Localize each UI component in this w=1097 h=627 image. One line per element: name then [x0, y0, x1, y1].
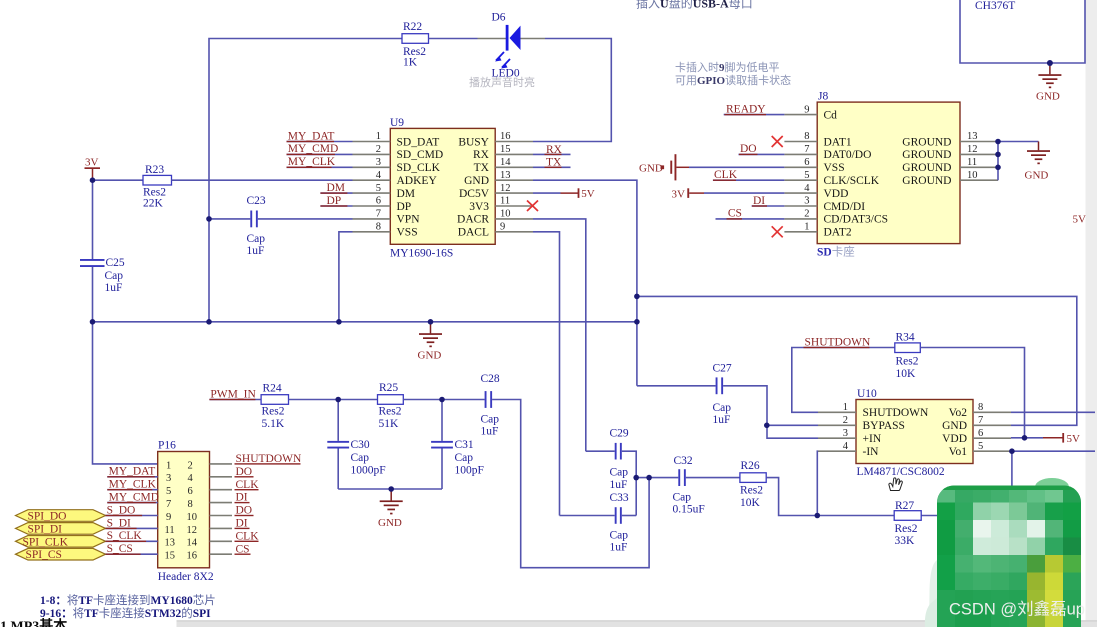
svg-text:BYPASS: BYPASS: [863, 420, 905, 432]
svg-text:1uF: 1uF: [610, 479, 628, 491]
wire R23 to U9 ADKEY: [172, 179, 353, 181]
capacitor C27: [713, 363, 732, 427]
svg-text:MY_CLK: MY_CLK: [288, 156, 336, 168]
svg-text:6: 6: [376, 196, 381, 207]
power port 3V on J8 VDD pin4: [672, 188, 785, 200]
svg-text:3: 3: [376, 157, 381, 168]
svg-text:1.MP3基本: 1.MP3基本: [0, 618, 68, 627]
svg-text:VDD: VDD: [942, 433, 967, 445]
wire VDD pin6 to 5V port: [1011, 433, 1080, 445]
svg-text:R27: R27: [895, 500, 914, 512]
svg-text:DACL: DACL: [458, 227, 489, 239]
svg-text:5V: 5V: [581, 188, 595, 200]
no-connect X on J8 pin1: [772, 226, 783, 237]
svg-text:R22: R22: [403, 21, 422, 33]
wire GND net to C27: [637, 385, 716, 387]
svg-text:12: 12: [500, 183, 511, 194]
svg-text:8: 8: [978, 402, 983, 413]
svg-text:22K: 22K: [143, 197, 164, 209]
port SPI_CS with net label S_CS (P16 pin15): [16, 543, 158, 561]
wire DACL vertical to C33: [560, 515, 615, 517]
U10 right pins: [973, 412, 1011, 451]
svg-text:RX: RX: [473, 149, 490, 161]
svg-text:1uF: 1uF: [713, 414, 731, 426]
svg-text:SPI_DO: SPI_DO: [28, 511, 67, 523]
svg-text:播放声音时亮: 播放声音时亮: [469, 75, 535, 89]
svg-text:6: 6: [188, 486, 193, 497]
svg-text:GND: GND: [1036, 91, 1060, 103]
wire 3V vertical through C25 down to GND bus and P16 pin1: [92, 180, 94, 259]
svg-text:SPI_CS: SPI_CS: [26, 549, 62, 561]
svg-text:10: 10: [500, 209, 511, 220]
svg-text:SHUTDOWN: SHUTDOWN: [805, 337, 871, 349]
svg-text:1: 1: [804, 222, 809, 233]
wire junction to C32: [636, 477, 678, 479]
svg-text:DO: DO: [236, 505, 253, 517]
svg-text:DI: DI: [236, 492, 248, 504]
svg-text:10: 10: [187, 512, 198, 523]
port SPI_CLK with net label S_CLK (P16 pin13): [16, 530, 158, 548]
svg-text:6: 6: [804, 157, 809, 168]
wire U9 DACL pin9 right then down: [533, 232, 560, 516]
net label CS (P16 pin16): [235, 543, 251, 555]
svg-text:11: 11: [500, 196, 510, 207]
svg-text:3: 3: [166, 473, 171, 484]
svg-text:1uF: 1uF: [247, 245, 265, 257]
bottom gray window bar: [177, 620, 1097, 627]
net label DO (P16 pin10): [235, 505, 254, 517]
net label DM: [320, 182, 352, 194]
svg-text:CLK: CLK: [236, 530, 260, 542]
svg-text:S_DI: S_DI: [107, 517, 131, 529]
svg-text:Cap: Cap: [610, 467, 629, 479]
svg-text:13: 13: [967, 131, 978, 142]
svg-text:Cap: Cap: [247, 233, 266, 245]
svg-text:R23: R23: [145, 164, 164, 176]
svg-text:GND: GND: [1025, 170, 1049, 182]
svg-text:10K: 10K: [896, 368, 917, 380]
svg-text:Res2: Res2: [895, 523, 918, 535]
ground symbol on bus: [418, 322, 443, 362]
svg-text:DAT2: DAT2: [824, 227, 852, 239]
svg-text:VDD: VDD: [824, 188, 849, 200]
svg-text:Cd: Cd: [824, 109, 838, 121]
svg-text:DACR: DACR: [457, 214, 489, 226]
svg-text:LM4871/CSC8002: LM4871/CSC8002: [857, 466, 945, 478]
svg-text:Cap: Cap: [713, 402, 732, 414]
svg-text:Header 8X2: Header 8X2: [158, 571, 214, 583]
svg-text:MY_CLK: MY_CLK: [109, 479, 157, 491]
svg-text:S_CLK: S_CLK: [107, 530, 143, 542]
svg-text:11: 11: [165, 525, 175, 536]
svg-text:SD_CLK: SD_CLK: [397, 162, 441, 174]
svg-text:10K: 10K: [740, 497, 761, 509]
svg-text:16: 16: [500, 131, 511, 142]
no-connect X on U9 pin11: [527, 201, 538, 212]
svg-text:D6: D6: [492, 12, 506, 24]
net label CLK (P16 pin14): [235, 530, 260, 542]
svg-text:VSS: VSS: [397, 227, 418, 239]
U9 left pins: [353, 142, 391, 232]
svg-text:14: 14: [187, 538, 198, 549]
svg-text:Res2: Res2: [379, 406, 402, 418]
wire x209 to C23: [209, 218, 250, 220]
svg-text:10: 10: [967, 170, 978, 181]
svg-text:SPI_DI: SPI_DI: [28, 523, 63, 535]
svg-text:SHUTDOWN: SHUTDOWN: [863, 407, 929, 419]
svg-text:MY1690-16S: MY1690-16S: [390, 248, 453, 260]
svg-text:Res2: Res2: [262, 406, 285, 418]
svg-text:MY_DAT: MY_DAT: [109, 466, 156, 478]
svg-text:5: 5: [166, 486, 171, 497]
wire C30 to C31 bottom: [338, 488, 442, 490]
svg-text:2: 2: [188, 460, 193, 471]
svg-text:C28: C28: [481, 373, 500, 385]
net label MY_CLK (P16 pin5): [107, 479, 157, 491]
svg-text:9-16：将TF卡座连接STM32的SPI: 9-16：将TF卡座连接STM32的SPI: [40, 606, 211, 620]
svg-text:7: 7: [804, 144, 809, 155]
svg-text:DO: DO: [236, 466, 253, 478]
ground symbol under CH376T: [1036, 63, 1061, 103]
svg-text:DM: DM: [327, 182, 346, 194]
svg-text:DAT1: DAT1: [824, 136, 852, 148]
svg-text:GND: GND: [942, 420, 967, 432]
svg-text:P16: P16: [158, 440, 176, 452]
long GND wire from x637 to U10 pin7: [637, 296, 1077, 425]
svg-text:GND: GND: [418, 350, 442, 362]
svg-text:TX: TX: [546, 157, 562, 169]
svg-text:7: 7: [978, 415, 983, 426]
svg-text:12: 12: [967, 144, 978, 155]
IC CH376T partial box top right: [960, 0, 1085, 63]
svg-text:5V: 5V: [1073, 214, 1087, 226]
svg-text:7: 7: [166, 499, 171, 510]
capacitor C30 with legs: [327, 400, 385, 490]
svg-text:ADKEY: ADKEY: [397, 175, 438, 187]
svg-text:2: 2: [843, 415, 848, 426]
svg-text:DC5V: DC5V: [459, 188, 490, 200]
svg-text:5.1K: 5.1K: [262, 418, 285, 430]
svg-text:1uF: 1uF: [610, 542, 628, 554]
svg-text:CLK: CLK: [714, 169, 738, 181]
svg-text:SPI_CLK: SPI_CLK: [23, 536, 69, 548]
svg-text:51K: 51K: [379, 418, 400, 430]
svg-text:8: 8: [188, 499, 193, 510]
svg-text:DM: DM: [397, 188, 416, 200]
svg-text:卡插入时9脚为低电平: 卡插入时9脚为低电平: [675, 60, 780, 74]
svg-text:5: 5: [376, 183, 381, 194]
svg-text:8: 8: [804, 131, 809, 142]
svg-text:R24: R24: [263, 383, 282, 395]
svg-text:7: 7: [376, 209, 381, 220]
svg-text:SHUTDOWN: SHUTDOWN: [236, 453, 302, 465]
svg-text:GND: GND: [464, 175, 489, 187]
svg-text:可用GPIO读取插卡状态: 可用GPIO读取插卡状态: [675, 73, 791, 87]
port SPI_DI with net label S_DI (P16 pin11): [16, 517, 158, 535]
svg-text:R25: R25: [379, 382, 398, 394]
J8 right ground pins: [960, 142, 998, 181]
svg-text:PWM_IN: PWM_IN: [210, 388, 256, 400]
svg-text:9: 9: [166, 512, 171, 523]
svg-text:3V: 3V: [672, 188, 686, 200]
net label DO (P16 pin4): [235, 466, 254, 478]
resistor R22: [402, 21, 429, 69]
svg-text:CD/DAT3/CS: CD/DAT3/CS: [824, 214, 889, 226]
net label PWM_IN: [209, 388, 261, 400]
net label MY_CMD: [287, 143, 353, 155]
net label CS (J8 pin2): [716, 208, 785, 220]
svg-text:1K: 1K: [403, 57, 418, 69]
svg-text:SD_CMD: SD_CMD: [397, 149, 444, 161]
svg-text:15: 15: [500, 144, 511, 155]
svg-text:SD卡座: SD卡座: [817, 245, 855, 259]
svg-text:13: 13: [500, 170, 511, 181]
svg-text:3V3: 3V3: [469, 201, 489, 213]
svg-text:READY: READY: [726, 103, 766, 115]
svg-text:11: 11: [967, 157, 977, 168]
wire top-left vertical and top run to R22: [209, 39, 402, 322]
svg-text:Cap: Cap: [351, 452, 370, 464]
power port 5V on U9 DC5V pin12: [533, 188, 595, 200]
svg-text:13: 13: [165, 538, 176, 549]
resistor R24: [261, 383, 288, 431]
svg-text:VSS: VSS: [824, 162, 845, 174]
wire R26 down to -IN node: [766, 478, 894, 516]
resistor R23: [143, 164, 172, 209]
svg-text:2: 2: [804, 209, 809, 220]
power ground bar on J8 VSS pin6: [639, 154, 784, 180]
connector J8 SD card socket: [804, 91, 977, 244]
power port 3V: [85, 156, 101, 180]
svg-text:C25: C25: [106, 257, 125, 269]
svg-text:Cap: Cap: [455, 452, 474, 464]
svg-text:8: 8: [376, 222, 381, 233]
net label SHUTDOWN with wire to U10 pin1: [792, 337, 895, 413]
wire C32 to R26: [686, 477, 740, 479]
svg-text:-IN: -IN: [863, 446, 880, 458]
svg-text:9: 9: [804, 104, 809, 115]
net label MY_CMD (P16 pin7): [107, 492, 159, 504]
svg-text:U10: U10: [857, 388, 877, 400]
net label CLK (P16 pin6): [235, 479, 260, 491]
svg-text:TX: TX: [474, 162, 490, 174]
svg-text:Cap: Cap: [105, 270, 124, 282]
J8 left pins: [784, 115, 817, 232]
U9 right pins: [495, 142, 533, 232]
capacitor C31 with legs: [431, 400, 484, 490]
wire R22 to D6: [429, 38, 478, 40]
svg-text:RX: RX: [546, 144, 563, 156]
svg-text:BUSY: BUSY: [458, 136, 489, 148]
svg-text:4: 4: [843, 441, 849, 452]
svg-text:C29: C29: [610, 428, 629, 440]
mouse hand cursor: [889, 478, 902, 491]
svg-text:9: 9: [500, 222, 505, 233]
svg-text:6: 6: [978, 428, 983, 439]
svg-text:MY_DAT: MY_DAT: [288, 130, 335, 142]
CSDN watermark logo: [925, 478, 1085, 627]
net label READY (J8 pin9): [724, 103, 785, 115]
capacitor C29: [610, 428, 629, 492]
net label DP: [320, 195, 352, 207]
GND bus wire: [93, 321, 637, 323]
svg-text:Res2: Res2: [896, 356, 919, 368]
U10 left pins: [818, 412, 856, 451]
LED D6: [478, 12, 546, 80]
svg-text:C33: C33: [610, 492, 629, 504]
net label DI (J8 pin3): [752, 195, 785, 207]
svg-text:CH376T: CH376T: [975, 0, 1015, 12]
svg-text:5: 5: [804, 170, 809, 181]
svg-text:4: 4: [188, 473, 194, 484]
svg-text:GROUND: GROUND: [902, 136, 951, 148]
svg-text:R34: R34: [896, 332, 915, 344]
svg-text:GROUND: GROUND: [902, 162, 951, 174]
wire DACR vertical to C29: [586, 450, 615, 452]
net label RX (U9 pin15): [533, 144, 571, 156]
svg-text:DP: DP: [397, 201, 412, 213]
svg-text:VPN: VPN: [397, 214, 421, 226]
svg-text:DI: DI: [753, 195, 765, 207]
svg-text:14: 14: [500, 157, 511, 168]
svg-text:DO: DO: [740, 143, 757, 155]
wire 3V to R23: [93, 179, 144, 181]
resistor R26: [740, 460, 766, 509]
svg-text:0.15uF: 0.15uF: [673, 504, 705, 516]
net label SHUTDOWN (P16 pin2): [235, 453, 302, 465]
resistor R34: [895, 332, 921, 381]
svg-text:4: 4: [804, 183, 810, 194]
capacitor C33: [610, 492, 629, 554]
svg-text:GND: GND: [378, 517, 402, 529]
svg-text:GROUND: GROUND: [902, 175, 951, 187]
svg-text:Vo2: Vo2: [949, 407, 968, 419]
svg-text:16: 16: [187, 551, 198, 562]
ground symbol under C30/C31: [378, 489, 403, 529]
wire R34 right down to VDD pin6 and 5V: [920, 348, 1024, 438]
svg-text:MY_CMD: MY_CMD: [109, 492, 159, 504]
svg-text:1: 1: [166, 460, 171, 471]
svg-text:1000pF: 1000pF: [351, 465, 386, 477]
capacitor C23: [247, 195, 266, 257]
wire C23 to U9 VPN: [258, 218, 353, 220]
svg-text:1: 1: [376, 131, 381, 142]
svg-text:C23: C23: [247, 195, 266, 207]
wire joining ground pins: [998, 142, 1039, 181]
wire Vo1 pin5 to right edge and down to R27: [921, 451, 1095, 515]
svg-text:12: 12: [187, 525, 198, 536]
wire C29 to junction: [622, 451, 636, 515]
svg-text:1-8：将TF卡座连接到MY1680芯片: 1-8：将TF卡座连接到MY1680芯片: [40, 593, 216, 607]
header P16: [158, 440, 214, 584]
net label TX (U9 pin14): [533, 157, 571, 169]
svg-text:3V: 3V: [85, 156, 99, 168]
window right edge band: [1086, 0, 1097, 627]
svg-text:CMD/DI: CMD/DI: [824, 201, 866, 213]
svg-text:GROUND: GROUND: [902, 149, 951, 161]
capacitor C28: [481, 373, 500, 438]
wire U9 VSS down to GND bus: [339, 232, 353, 322]
P16 right pins row wires: [210, 464, 233, 554]
resistor R27: [894, 500, 921, 547]
svg-text:3: 3: [843, 428, 848, 439]
wire U9 DACR pin10 right then down: [533, 219, 586, 451]
svg-text:1uF: 1uF: [481, 426, 499, 438]
wire C27 to U10 BYPASS and +IN: [723, 386, 818, 438]
svg-text:U9: U9: [390, 117, 404, 129]
IC U10 LM4871: [843, 388, 984, 478]
net label CLK (J8 pin5): [713, 169, 785, 181]
svg-text:33K: 33K: [895, 535, 916, 547]
wire R24 to R25: [289, 399, 378, 401]
svg-text:S_CS: S_CS: [107, 543, 133, 555]
svg-text:DI: DI: [236, 518, 248, 530]
net label MY_DAT (P16 pin3): [107, 466, 157, 478]
svg-text:DAT0/DO: DAT0/DO: [824, 149, 872, 161]
svg-text:1: 1: [843, 402, 848, 413]
net label DI (P16 pin12): [235, 518, 250, 530]
svg-text:Vo1: Vo1: [949, 446, 968, 458]
svg-text:SD_DAT: SD_DAT: [397, 136, 440, 148]
svg-text:DP: DP: [327, 195, 342, 207]
svg-text:C30: C30: [351, 439, 370, 451]
net label MY_CLK: [287, 156, 353, 168]
svg-text:CLK: CLK: [236, 479, 260, 491]
svg-text:5: 5: [978, 441, 983, 452]
capacitor C32: [673, 455, 705, 516]
net label DO (J8 pin7): [739, 143, 785, 155]
svg-text:5V: 5V: [1067, 433, 1081, 445]
wire U9 GND pin13 right then down: [533, 180, 637, 386]
svg-text:3: 3: [804, 196, 809, 207]
svg-text:2: 2: [376, 144, 381, 155]
svg-text:100pF: 100pF: [455, 465, 484, 477]
svg-text:CS: CS: [236, 543, 250, 555]
svg-text:+IN: +IN: [863, 433, 882, 445]
svg-text:GND: GND: [639, 162, 663, 174]
svg-text:Cap: Cap: [673, 492, 692, 504]
svg-text:R26: R26: [741, 460, 760, 472]
net label DI (P16 pin8): [235, 492, 250, 504]
svg-text:CLK/SCLK: CLK/SCLK: [824, 175, 880, 187]
svg-text:Cap: Cap: [481, 414, 500, 426]
svg-text:CSDN @刘鑫磊up: CSDN @刘鑫磊up: [949, 600, 1085, 619]
wire R25 to C28: [403, 399, 484, 401]
capacitor C25: [80, 257, 125, 294]
svg-text:S_DO: S_DO: [107, 504, 136, 516]
svg-text:C27: C27: [713, 363, 732, 375]
svg-text:4: 4: [376, 170, 382, 181]
svg-text:15: 15: [165, 551, 176, 562]
svg-text:Cap: Cap: [610, 530, 629, 542]
ground symbol right of J8: [1025, 142, 1051, 182]
IC U9 MY1690-16S: [376, 117, 512, 260]
no-connect X on J8 pin8: [772, 136, 783, 147]
svg-text:CS: CS: [728, 208, 742, 220]
svg-text:MY_CMD: MY_CMD: [288, 143, 338, 155]
svg-text:插入U盘的USB-A母口: 插入U盘的USB-A母口: [636, 0, 753, 11]
wire D6 to BUSY pin16: [533, 39, 611, 142]
wire C28 right down and along bottom to C32 branch: [492, 400, 649, 568]
wire -IN node up to U10 pin4: [816, 451, 819, 515]
svg-text:C32: C32: [674, 455, 693, 467]
svg-text:Res2: Res2: [740, 485, 763, 497]
port SPI_DO with net label S_DO (P16 pin9): [16, 504, 158, 522]
resistor R25: [378, 382, 404, 430]
svg-text:C31: C31: [455, 439, 474, 451]
wire Vo2 pin8 to right edge: [1011, 411, 1095, 413]
svg-text:1uF: 1uF: [105, 282, 123, 294]
